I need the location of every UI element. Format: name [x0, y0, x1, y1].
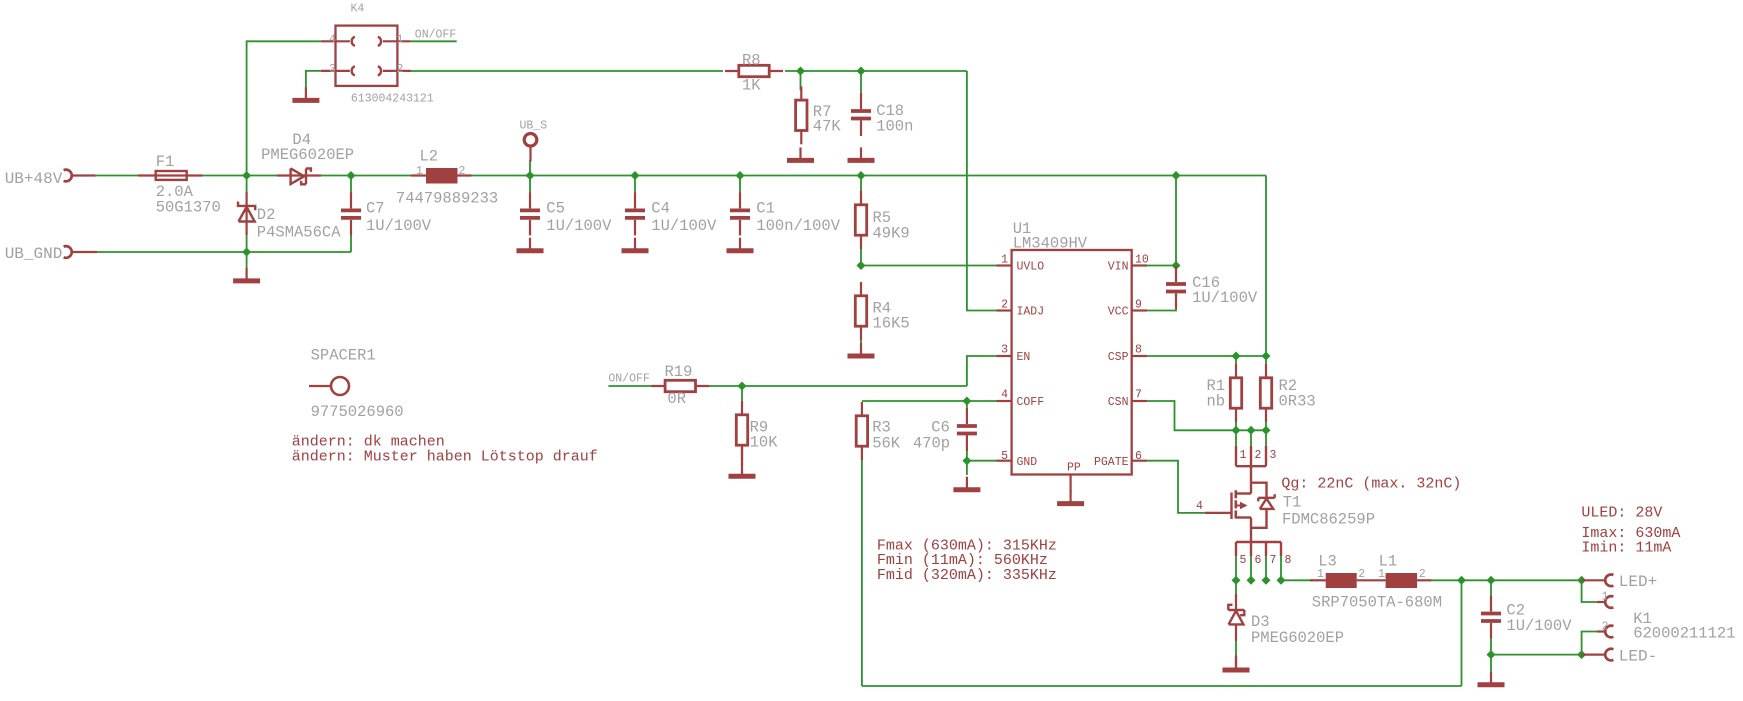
svg-text:3: 3: [1270, 449, 1277, 462]
svg-text:470p: 470p: [913, 435, 950, 453]
svg-text:1: 1: [416, 165, 423, 178]
svg-text:C5: C5: [546, 200, 565, 218]
svg-text:2: 2: [1602, 621, 1609, 634]
svg-text:VCC: VCC: [1108, 306, 1129, 319]
svg-text:R8: R8: [742, 52, 761, 70]
svg-text:ULED: 28V: ULED: 28V: [1581, 504, 1662, 521]
svg-text:IADJ: IADJ: [1017, 306, 1045, 319]
svg-text:PGATE: PGATE: [1094, 456, 1129, 469]
svg-text:4: 4: [1001, 389, 1008, 402]
svg-text:PP: PP: [1067, 462, 1081, 475]
svg-text:C4: C4: [651, 200, 670, 218]
svg-text:T1: T1: [1283, 494, 1302, 512]
svg-text:D2: D2: [257, 206, 276, 224]
svg-text:COFF: COFF: [1017, 396, 1045, 409]
svg-text:Fmid (320mA): 335KHz: Fmid (320mA): 335KHz: [877, 567, 1057, 584]
svg-text:CSP: CSP: [1108, 351, 1129, 364]
svg-text:VIN: VIN: [1108, 261, 1129, 274]
svg-text:K4: K4: [351, 3, 365, 16]
svg-text:CSN: CSN: [1108, 396, 1129, 409]
svg-text:74479889233: 74479889233: [396, 190, 498, 208]
svg-text:56K: 56K: [872, 435, 901, 453]
svg-text:5: 5: [1001, 450, 1008, 463]
svg-text:C1: C1: [756, 200, 775, 218]
svg-text:1U/100V: 1U/100V: [546, 217, 612, 235]
svg-text:UB_GND: UB_GND: [5, 245, 63, 263]
svg-text:P4SMA56CA: P4SMA56CA: [257, 224, 341, 242]
svg-text:Qg: 22nC (max. 32nC): Qg: 22nC (max. 32nC): [1281, 476, 1461, 493]
svg-text:1: 1: [1001, 254, 1008, 267]
svg-text:GND: GND: [1017, 456, 1038, 469]
svg-text:SRP7050TA-680M: SRP7050TA-680M: [1312, 594, 1442, 612]
svg-text:2: 2: [397, 63, 404, 76]
svg-text:L2: L2: [420, 148, 439, 166]
svg-text:UB_S: UB_S: [520, 120, 548, 133]
svg-text:1U/100V: 1U/100V: [651, 217, 717, 235]
svg-text:9775026960: 9775026960: [311, 403, 404, 421]
svg-text:2: 2: [1358, 568, 1365, 581]
svg-text:EN: EN: [1017, 351, 1031, 364]
svg-text:3: 3: [329, 63, 336, 76]
svg-text:ON/OFF: ON/OFF: [608, 373, 650, 386]
svg-text:PMEG6020EP: PMEG6020EP: [261, 146, 354, 164]
svg-text:1: 1: [1378, 568, 1385, 581]
svg-text:3: 3: [1001, 344, 1008, 357]
svg-text:62000211121: 62000211121: [1633, 625, 1735, 643]
svg-text:2: 2: [1419, 568, 1426, 581]
svg-text:1K: 1K: [742, 77, 761, 95]
svg-text:Imin: 11mA: Imin: 11mA: [1581, 540, 1671, 557]
svg-text:1: 1: [397, 33, 404, 46]
svg-text:LED+: LED+: [1619, 573, 1657, 591]
svg-text:R19: R19: [665, 363, 693, 381]
svg-text:2: 2: [1001, 299, 1008, 312]
svg-text:4: 4: [1196, 500, 1203, 513]
svg-text:SPACER1: SPACER1: [311, 347, 376, 365]
svg-text:C6: C6: [931, 418, 950, 436]
svg-text:FDMC86259P: FDMC86259P: [1282, 511, 1375, 529]
svg-text:LM3409HV: LM3409HV: [1013, 235, 1088, 253]
svg-text:0R33: 0R33: [1279, 393, 1316, 411]
svg-text:nb: nb: [1207, 393, 1226, 411]
svg-text:16K5: 16K5: [873, 315, 910, 333]
svg-text:1: 1: [1602, 591, 1609, 604]
svg-text:100n/100V: 100n/100V: [756, 217, 840, 235]
svg-text:UB+48V: UB+48V: [5, 170, 63, 188]
svg-text:49K9: 49K9: [873, 225, 910, 243]
svg-text:ON/OFF: ON/OFF: [415, 29, 457, 42]
svg-text:0R: 0R: [667, 390, 686, 408]
svg-text:7: 7: [1270, 554, 1277, 567]
svg-text:6: 6: [1135, 450, 1142, 463]
svg-text:9: 9: [1135, 299, 1142, 312]
svg-text:100n: 100n: [876, 118, 913, 136]
svg-text:2: 2: [459, 165, 466, 178]
svg-text:47K: 47K: [813, 117, 842, 135]
svg-text:7: 7: [1135, 389, 1142, 402]
svg-text:LED-: LED-: [1619, 648, 1657, 666]
svg-text:C7: C7: [366, 200, 385, 218]
svg-text:UVLO: UVLO: [1017, 261, 1045, 274]
svg-text:1U/100V: 1U/100V: [366, 217, 432, 235]
svg-text:ändern: Muster haben Lötstop d: ändern: Muster haben Lötstop drauf: [292, 449, 598, 466]
svg-text:4: 4: [329, 33, 336, 46]
svg-text:F1: F1: [156, 153, 175, 171]
svg-text:2: 2: [1255, 449, 1262, 462]
svg-text:10K: 10K: [750, 434, 779, 452]
svg-text:10: 10: [1135, 254, 1149, 267]
svg-text:8: 8: [1285, 554, 1292, 567]
svg-text:1U/100V: 1U/100V: [1192, 289, 1258, 307]
svg-text:613004243121: 613004243121: [351, 93, 434, 106]
svg-text:1U/100V: 1U/100V: [1506, 617, 1572, 635]
svg-text:6: 6: [1255, 554, 1262, 567]
svg-text:PMEG6020EP: PMEG6020EP: [1251, 629, 1344, 647]
svg-text:5: 5: [1240, 554, 1247, 567]
svg-text:1: 1: [1240, 449, 1247, 462]
svg-text:1: 1: [1317, 568, 1324, 581]
svg-text:50G1370: 50G1370: [156, 199, 221, 217]
svg-text:8: 8: [1135, 344, 1142, 357]
